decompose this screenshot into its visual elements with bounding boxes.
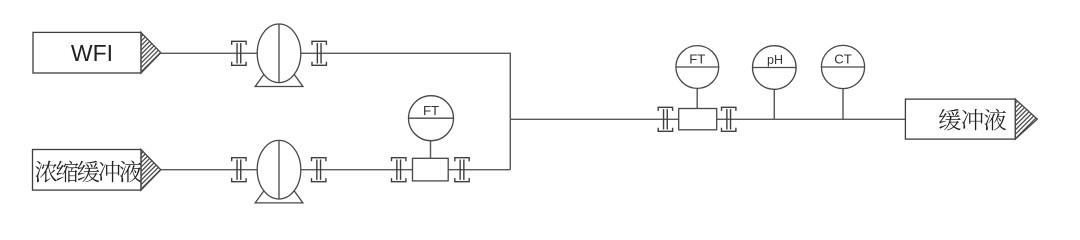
svg-text:pH: pH [767,53,783,67]
box concentrated buffer source [33,150,142,191]
wire pH stem [773,90,775,120]
clamp fitting FM1 inlet [392,158,406,182]
clamp fitting P2 inlet [232,158,246,182]
wire CT stem [842,89,844,120]
flow meter body FM2 [679,109,717,130]
clamp fitting FM2 inlet [658,107,672,131]
clamp fitting P1 outlet [312,41,326,65]
wire FT2 stem [696,88,698,108]
svg-text:WFI: WFI [71,40,113,66]
wire bottom pipe concentrate to junction [161,169,511,171]
pump P1 [255,24,303,87]
svg-text:FT: FT [423,103,439,118]
instrument FT1 [409,96,454,141]
wire output pipe [510,118,905,120]
clamp fitting P1 inlet [232,41,246,65]
pump P2 [255,140,303,203]
clamp fitting FM1 outlet [455,158,469,182]
instrument FT2 [676,46,719,89]
svg-text:FT: FT [689,52,705,67]
box WFI source [33,32,141,73]
arrow buffer outlet [1015,99,1077,161]
wire top pipe WFI to junction [161,53,511,169]
arrow concentrate outlet [141,150,198,207]
box buffer product [905,99,1015,139]
clamp fitting FM2 outlet [722,107,736,131]
clamp fitting P2 outlet [312,158,326,182]
instrument CT [821,45,864,88]
arrow WFI outlet [141,32,198,89]
wire FT1 stem [430,140,432,158]
instrument pH [753,46,797,90]
svg-text:CT: CT [834,52,852,67]
flow meter body FM1 [413,158,449,181]
